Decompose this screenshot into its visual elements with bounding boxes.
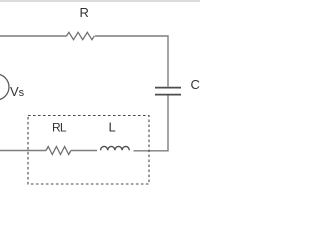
svg-text:L: L — [109, 120, 116, 135]
svg-text:Vs: Vs — [10, 84, 25, 99]
wire right-lower — [134, 96, 169, 151]
resistor RL — [46, 147, 71, 155]
resistor R — [67, 32, 95, 39]
wire top-right — [95, 36, 168, 87]
dashed load box — [28, 116, 149, 185]
svg-text:C: C — [191, 77, 200, 92]
voltage source Vs (circle cut by left edge) — [0, 74, 9, 100]
top edge strip — [0, 0, 200, 2]
wire RL-to-L — [71, 150, 97, 152]
wire top-left — [0, 35, 67, 37]
svg-text:R: R — [80, 5, 89, 20]
inductor L — [101, 146, 130, 150]
wire bottom-left — [0, 150, 46, 152]
svg-text:RL: RL — [52, 121, 67, 135]
capacitor C — [155, 88, 181, 95]
